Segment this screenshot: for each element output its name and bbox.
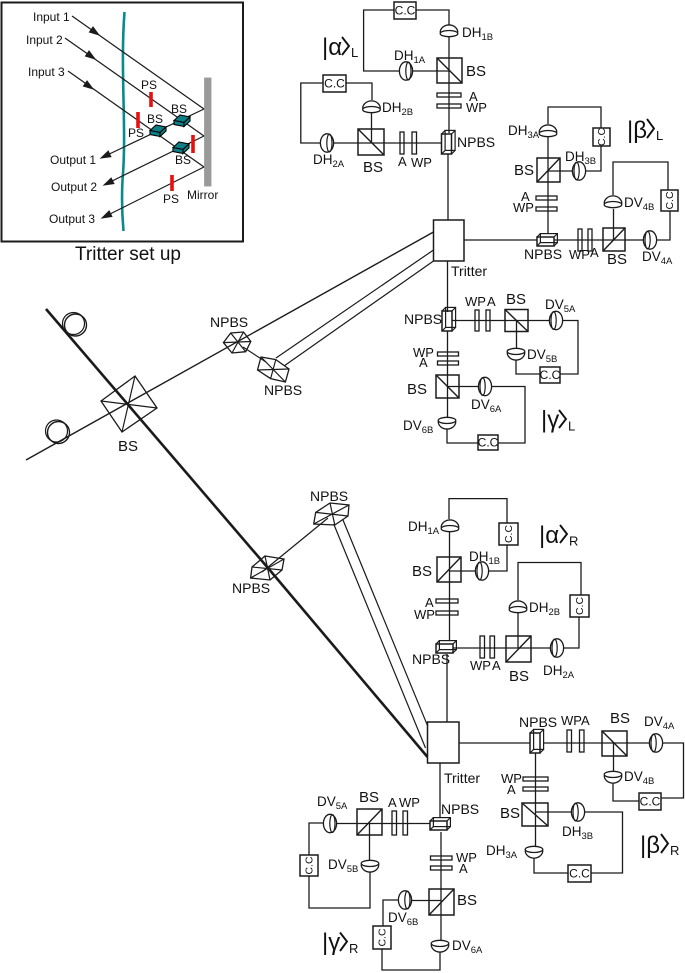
waveplate WP (aL vertical beam) [437, 104, 461, 108]
svg-text:BS: BS [359, 789, 379, 806]
arrowhead input 1 [89, 27, 99, 35]
coincidence counter C.C (DV6 pair) [478, 435, 499, 450]
wire DV6B to C.C [447, 429, 478, 443]
beam splitter BS3 [537, 158, 560, 182]
beam NPBS2 to Tritter1 (upper) [276, 250, 434, 358]
svg-text:NPBS: NPBS [210, 314, 248, 330]
NPBS gL (vertical box) [442, 307, 456, 331]
svg-text:Input 2: Input 2 [26, 33, 63, 47]
svg-text:R: R [670, 843, 679, 858]
svg-text:BS: BS [407, 381, 427, 398]
wire C.C2 right to DH2B [346, 83, 372, 100]
svg-text:WP: WP [561, 713, 582, 728]
wire NPBS aR through BSR2 to DH2A [453, 647, 550, 649]
detector DH3A (bR) [525, 846, 543, 858]
svg-text:NPBS: NPBS [412, 651, 450, 667]
wire DV6B to C.C2 [383, 900, 398, 926]
waveplate A (aR horizontal) [490, 636, 495, 658]
wire Tritter2 to NPBS bR [459, 742, 530, 744]
svg-text:BS: BS [118, 438, 138, 455]
svg-text:NPBS: NPBS [232, 580, 270, 596]
wire Tritter to NPBS bL [464, 239, 537, 241]
waveplate A (gR horizontal) [392, 811, 397, 835]
detector DH1A (aR) [441, 520, 459, 532]
svg-text:WP: WP [414, 607, 435, 622]
svg-text:WP: WP [411, 155, 432, 170]
svg-text:BS: BS [607, 251, 627, 268]
waveplate A (gL horizontal) [486, 310, 490, 331]
beam NPBS5 to Tritter2 (lower) [343, 520, 428, 726]
wire DH1B through BS1 down to NPBS [448, 37, 450, 133]
beam splitter BS inset 3 (teal cube) [173, 142, 189, 154]
NPBS hexagon 5 (lower) [314, 503, 349, 525]
waveplate WP (gL vertical) [438, 352, 459, 356]
svg-text:R: R [569, 534, 578, 549]
svg-text:|β: |β [627, 117, 647, 144]
wire NPBS bL through BS4 to DV4A [554, 239, 643, 241]
svg-text:BS: BS [412, 563, 432, 580]
svg-text:NPBS: NPBS [404, 311, 442, 327]
wire BS4 center up to DV4B [613, 209, 615, 240]
wire input 3 beam [68, 71, 204, 167]
wire NPBS bR through BS4R to DV4A [543, 742, 649, 744]
wire NPBS gR through BS6R down to DV6A [440, 832, 442, 940]
beam splitter BS3 R [522, 803, 548, 826]
svg-text:C.C: C.C [304, 856, 316, 875]
coincidence counter C.C (DV4 pair R) [639, 793, 661, 810]
svg-text:C.C: C.C [395, 4, 416, 18]
NPBS gR (horizontal box) [430, 818, 450, 830]
ket label |a>_L [322, 34, 358, 61]
detector DV5B (gR) [361, 860, 379, 872]
wire DV6A to C.C loop [492, 387, 525, 444]
coincidence counter C.C 1 [394, 2, 416, 19]
svg-text:R: R [349, 941, 358, 956]
svg-text:C.C: C.C [377, 928, 389, 947]
svg-text:Output 2: Output 2 [51, 180, 97, 194]
svg-text:BS: BS [171, 102, 187, 116]
svg-text:A: A [487, 294, 496, 309]
wire input 1 beam [72, 16, 204, 109]
wire C.C1 right to DH1B [416, 10, 449, 25]
svg-text:NPBS: NPBS [310, 488, 348, 504]
phase shifter PS bar 1 [149, 92, 153, 107]
lens DV4A [643, 231, 656, 249]
svg-text:WP: WP [465, 294, 486, 309]
svg-text:A: A [507, 782, 516, 797]
svg-text:BS: BS [506, 291, 526, 308]
svg-text:BS: BS [500, 805, 520, 822]
beam splitter BS2 [358, 129, 384, 155]
svg-text:|β: |β [640, 832, 660, 859]
wire DH2B to BSR2 center [517, 613, 519, 648]
waveplate A (aL horizontal beam) [400, 132, 404, 154]
lens DH2A [320, 134, 333, 152]
coincidence counter C.C 2 [323, 75, 346, 92]
detector DH1B [440, 25, 458, 37]
svg-text:BS: BS [457, 892, 477, 909]
waveplate WP (gR vertical) [431, 856, 453, 860]
svg-text:BS: BS [509, 668, 529, 685]
svg-text:BS: BS [363, 159, 383, 176]
svg-text:A: A [388, 795, 397, 810]
svg-text:|γ: |γ [322, 929, 340, 956]
svg-text:NPBS: NPBS [524, 246, 562, 262]
svg-text:NPBS: NPBS [264, 382, 302, 398]
svg-text:|α: |α [539, 522, 559, 549]
phase shifter PS bar 2 [136, 112, 140, 128]
arrowhead input 2 [85, 51, 95, 59]
detector DV4B [604, 196, 622, 208]
svg-text:C.C: C.C [596, 128, 608, 147]
wire BS5R center down to DV5B [369, 824, 371, 861]
lens DV6B (gR) [398, 891, 411, 909]
wire DH1A through BSR1 down to NPBS aR [449, 532, 451, 640]
svg-text:WP: WP [466, 100, 487, 115]
svg-text:C.C: C.C [478, 436, 499, 450]
svg-text:C.C: C.C [664, 191, 676, 210]
detector DV6B [438, 417, 456, 429]
waveplate WP (bL horizontal) [578, 229, 582, 251]
NPBS aL (vertical box) [442, 130, 456, 154]
arrowhead output 1 [101, 151, 111, 158]
waveplate A (bR horizontal) [580, 730, 585, 752]
wire DV5B to C.C [516, 360, 540, 374]
wire BS3R center to DH3B [536, 811, 572, 813]
svg-text:C.C: C.C [640, 795, 661, 809]
wire NPBS gL through BS5 to DV5A [452, 320, 549, 322]
NPBS hexagon 2 [258, 357, 290, 382]
wire NPBS4 to NPBS5 [262, 518, 328, 572]
waveplate A (bR vertical) [523, 787, 548, 791]
wire DV4B to C.C [613, 783, 639, 801]
coincidence counter C.C (aR DH1 pair) [499, 523, 518, 545]
beam from lower-left through BS and NPBS to Tritter1 [26, 232, 434, 460]
beam splitter BS inset 2 (teal cube) [150, 125, 166, 137]
svg-text:|γ: |γ [541, 407, 559, 434]
ket label |b>_L [627, 117, 663, 144]
wire BS5 center down to DV5B [516, 321, 518, 349]
svg-text:WP: WP [569, 247, 590, 262]
beam splitter BS4 R [602, 731, 627, 756]
wire output 1 beam [103, 109, 204, 157]
coincidence counter C.C (aR DH2 pair) [570, 595, 589, 617]
waveplate WP (gL horizontal) [475, 310, 479, 331]
phase shifter PS bar 4 [170, 175, 174, 191]
wire DH1A to BS1 center [413, 70, 450, 72]
ket label |g>_L [541, 407, 575, 434]
detector DV5B [507, 348, 525, 360]
coincidence counter C.C (DV6 pair R) [373, 926, 391, 949]
waveplate A (gR vertical) [431, 866, 453, 870]
svg-text:BS: BS [610, 710, 630, 727]
arrowhead input 3 [83, 81, 93, 89]
NPBS bL (horizontal box) [537, 234, 557, 246]
beam splitter BS1 [437, 58, 462, 83]
wire BS3 center to DH3B [548, 170, 572, 172]
wire NPBS down to Tritter [447, 154, 449, 220]
wire NPBS bR through BS3R down to DH3A [535, 753, 537, 846]
waveplate WP (bR vertical) [523, 777, 548, 781]
beam NPBS2 to Tritter1 (lower) [284, 261, 434, 366]
wire NPBS gR through BS5R to DV5A [337, 823, 430, 825]
svg-text:NPBS: NPBS [441, 801, 479, 817]
wire BSR1 center to DH1B [449, 570, 475, 572]
svg-text:BS: BS [466, 63, 486, 80]
wire C.C2 left loop [301, 83, 323, 143]
teal fiber line (inset) [122, 12, 124, 231]
phase shifter PS bar 3 [191, 135, 195, 153]
svg-text:C.C: C.C [569, 867, 590, 881]
NPBS hexagon 1 [223, 332, 250, 353]
svg-text:C.C: C.C [503, 525, 515, 544]
wire Tritter2 down to NPBS gR [439, 763, 441, 817]
waveplate WP (aL horizontal beam) [412, 132, 417, 154]
svg-text:L: L [568, 419, 575, 434]
wire output 2 beam [106, 136, 204, 184]
svg-text:A: A [492, 658, 501, 673]
svg-text:A: A [581, 713, 590, 728]
waveplate WP (aR vertical) [436, 611, 458, 615]
detector DH2B (aR) [509, 601, 527, 613]
svg-text:WP: WP [399, 795, 420, 810]
beam splitter BS central (rotated square) [101, 376, 157, 432]
wire DH2A to C.C2 [564, 617, 579, 648]
coincidence counter C.C (DV5 pair R) [300, 855, 318, 876]
lens DV4A (bR) [649, 734, 662, 752]
lens DH3B [572, 162, 585, 180]
svg-text:PS: PS [141, 78, 157, 92]
svg-text:Tritter: Tritter [451, 263, 487, 279]
mirror (inset) [205, 78, 212, 186]
wire DV4A to C.C [657, 211, 670, 240]
waveplate WP (bL vertical) [536, 207, 557, 211]
svg-text:BS: BS [514, 162, 534, 179]
wire BS4R center down to DV4B [613, 743, 615, 771]
svg-text:C.C: C.C [574, 597, 586, 616]
beam splitter BS R1 [437, 557, 461, 582]
wire DV4A to C.C [661, 743, 684, 798]
wire DH3A to C.C [534, 858, 568, 873]
waveplate WP (bR horizontal) [567, 730, 572, 752]
inset border frame [2, 3, 244, 242]
NPBS bR (vertical box) [530, 729, 544, 753]
wire Tritter1 bottom to NPBS gL [447, 261, 449, 312]
detector DV4B (bR) [604, 771, 622, 783]
lens DV5A (gR) [323, 814, 336, 832]
wire DV5B to C.C loop [309, 872, 370, 908]
wire output 3 beam [104, 167, 204, 217]
wire DH3A through BS3 down to NPBS bL [547, 137, 549, 233]
waveplate WP (aR horizontal) [480, 636, 485, 658]
fiber loop 1 [63, 313, 87, 337]
beam splitter BS5 [505, 310, 528, 332]
svg-text:NPBS: NPBS [457, 134, 495, 150]
waveplate A (bL horizontal) [588, 229, 592, 251]
svg-text:WP: WP [513, 200, 534, 215]
svg-text:PS: PS [128, 126, 144, 140]
waveplate A (gL vertical) [438, 361, 459, 365]
waveplate A (aR vertical) [436, 599, 458, 603]
lens DH1B (aR) [475, 562, 488, 580]
NPBS hexagon 4 (lower) [251, 556, 284, 580]
svg-text:L: L [656, 128, 663, 143]
Tritter 2 box [428, 722, 460, 763]
svg-text:Tritter set up: Tritter set up [75, 244, 181, 265]
lens DV6A [478, 377, 491, 395]
wire BS6R center to DV6B [412, 900, 442, 902]
beam NPBS5 to Tritter2 (upper) [334, 524, 426, 748]
svg-text:C.C: C.C [324, 77, 345, 91]
wire DH3B to C.C loop [585, 812, 623, 873]
svg-text:Mirror: Mirror [187, 188, 218, 202]
wire NPBS aR down to Tritter2 [446, 654, 448, 722]
svg-text:C.C: C.C [540, 368, 561, 382]
svg-text:Output 3: Output 3 [49, 212, 95, 226]
fiber loop 2 [46, 420, 70, 444]
beam splitter BS6 [436, 375, 459, 398]
NPBS aR (horizontal box) [436, 641, 456, 653]
wire DH1A top loop (aR) [449, 499, 507, 523]
coincidence counter C.C (DV5 pair) [540, 367, 561, 383]
wire DH1B to C.C [489, 545, 507, 571]
wire C.C to DH3B [586, 146, 601, 171]
arrowhead output 3 [102, 211, 112, 218]
wire DH2B to BS2 center [371, 113, 373, 142]
svg-text:Tritter: Tritter [444, 770, 480, 786]
lens DH3B (bR) [571, 803, 584, 821]
wire DV6A to C.C loop [382, 949, 440, 970]
detector DH3A [539, 125, 557, 137]
detector DV6A (gR) [431, 940, 449, 952]
detector DH2B [363, 101, 381, 113]
coincidence counter C.C (DH3 pair R) [568, 865, 591, 882]
coincidence counter C.C (DH3 pair) [593, 128, 610, 147]
wire input 2 beam [65, 38, 204, 136]
beam splitter BS R2 [506, 636, 531, 662]
svg-text:A: A [459, 861, 468, 876]
waveplate A (bL vertical) [536, 196, 557, 200]
svg-text:A: A [398, 154, 407, 169]
beam splitter BS inset 1 (teal cube) [174, 115, 190, 127]
arrowhead output 2 [104, 178, 114, 185]
svg-text:BS: BS [175, 153, 191, 167]
svg-text:BS: BS [147, 112, 163, 126]
lens DV5A [549, 311, 562, 329]
beam splitter BS6 R [429, 889, 454, 915]
beam splitter BS4 [603, 228, 625, 251]
svg-text:A: A [590, 245, 599, 260]
wire NPBS gL through BS6 down to DV6B [447, 331, 449, 417]
wire DV4B to C.C [613, 162, 668, 195]
wire BS6 center to DV6A [448, 386, 479, 388]
ket label |b>_R [640, 832, 679, 859]
waveplate WP (gR horizontal) [403, 811, 408, 835]
wire DH2B top loop [518, 563, 581, 601]
wire NPBS1 to NPBS2 [243, 347, 266, 362]
svg-text:A: A [419, 355, 428, 370]
waveplate A (aL vertical beam) [437, 93, 461, 97]
lens DH1A [399, 62, 412, 80]
svg-text:|α: |α [322, 34, 342, 61]
ket label |a>_R [539, 522, 578, 549]
wire DV5A to C.C loop [560, 321, 578, 375]
wire DH3A top loop [548, 107, 601, 128]
coincidence counter C.C (DV4 pair) [661, 190, 678, 211]
wire C.C1 left loop [364, 10, 399, 71]
ket label |g>_R [322, 929, 358, 956]
lens DH2A (aR) [550, 639, 563, 657]
thick beam (pump) through BS to Tritter2 [46, 309, 428, 757]
Tritter 1 box [434, 220, 465, 261]
svg-text:L: L [351, 45, 358, 60]
svg-text:WP: WP [470, 658, 491, 673]
svg-text:NPBS: NPBS [519, 714, 557, 730]
wire DV5A to C.C [309, 823, 323, 855]
svg-text:Input 1: Input 1 [33, 10, 70, 24]
svg-text:Input 3: Input 3 [28, 65, 65, 79]
wire DH2A through BS2 to NPBS [334, 142, 442, 144]
beam splitter BS5 R [357, 809, 382, 835]
svg-text:PS: PS [163, 192, 179, 206]
svg-text:Output 1: Output 1 [50, 153, 96, 167]
